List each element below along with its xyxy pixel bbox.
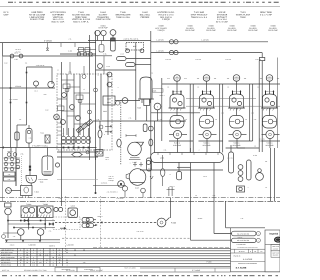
- svg-text:S-607: S-607: [135, 187, 139, 190]
- svg-text:APPROVED FOR CONSTRUCTION: APPROVED FOR CONSTRUCTION: [237, 247, 257, 249]
- svg-text:SCH PIPING: SCH PIPING: [62, 268, 72, 271]
- svg-text:1-1/2: 1-1/2: [221, 113, 224, 115]
- svg-text:4"A: 4"A: [184, 77, 186, 80]
- svg-text:Imperial: Imperial: [269, 233, 278, 236]
- svg-text:4 10: 4 10: [14, 58, 17, 61]
- svg-text:30 G. 6 CAP.: 30 G. 6 CAP.: [216, 20, 229, 23]
- svg-text:2 A: 2 A: [197, 87, 199, 89]
- svg-text:1 A: 1 A: [265, 187, 267, 189]
- svg-text:NOTE 3-8: NOTE 3-8: [2, 269, 9, 272]
- svg-text:4 AC: 4 AC: [45, 109, 49, 112]
- svg-text:1-1/2 CW: 1-1/2 CW: [156, 39, 164, 42]
- svg-text:CONSTR: CONSTR: [273, 248, 279, 250]
- svg-text:4: 4: [33, 256, 34, 259]
- svg-text:606: 606: [268, 79, 271, 81]
- svg-text:2 DRAIN: 2 DRAIN: [15, 85, 22, 88]
- svg-text:2 SL 4: 2 SL 4: [10, 244, 15, 247]
- svg-text:1 CW: 1 CW: [106, 66, 110, 68]
- svg-text:1/2 PM 21: 1/2 PM 21: [101, 181, 108, 184]
- svg-text:9: 9: [20, 248, 21, 251]
- svg-text:4-0 x 7-0 HP: 4-0 x 7-0 HP: [260, 14, 273, 17]
- svg-text:4 SL: 4 SL: [13, 236, 16, 238]
- svg-text:T-609B: T-609B: [43, 203, 48, 206]
- svg-text:HC 21 4: HC 21 4: [15, 48, 21, 51]
- svg-text:1-A: 1-A: [265, 160, 267, 163]
- svg-text:2: 2: [118, 87, 119, 89]
- svg-text:XFER PMP: XFER PMP: [98, 27, 108, 30]
- svg-text:4: 4: [84, 88, 85, 91]
- svg-text:1-1/2 CW: 1-1/2 CW: [165, 58, 172, 61]
- svg-text:UMP: UMP: [4, 14, 9, 17]
- svg-text:04: 04: [74, 253, 76, 256]
- svg-text:2 A: 2 A: [167, 87, 169, 89]
- svg-text:4"A: 4"A: [197, 77, 199, 80]
- svg-text:NOTE 6: NOTE 6: [97, 216, 102, 218]
- svg-text:1-1/2: 1-1/2: [68, 50, 72, 53]
- svg-text:2 SL: 2 SL: [20, 153, 23, 156]
- svg-text:T-602: T-602: [34, 191, 38, 194]
- svg-text:2 REQD: 2 REQD: [157, 29, 165, 32]
- svg-text:2" DRAIN: 2" DRAIN: [44, 39, 53, 42]
- svg-text:2 SL NOTE: 2 SL NOTE: [116, 198, 123, 200]
- svg-text:2: 2: [248, 187, 249, 189]
- svg-text:3 SL: 3 SL: [29, 138, 32, 140]
- svg-text:NOTE 7: NOTE 7: [108, 178, 113, 180]
- svg-text:NOTE 4: NOTE 4: [7, 151, 12, 153]
- svg-text:RG 4750 025 036: RG 4750 025 036: [237, 239, 249, 242]
- svg-text:FEED PMP: FEED PMP: [227, 29, 237, 32]
- svg-text:CWS: CWS: [103, 110, 107, 113]
- svg-text:606: 606: [235, 79, 238, 81]
- svg-text:1-1/2: 1-1/2: [251, 113, 254, 115]
- svg-text:L-601: L-601: [160, 157, 164, 160]
- svg-text:1-1/2 CW 4A: 1-1/2 CW 4A: [36, 64, 45, 67]
- svg-text:21: 21: [59, 248, 61, 251]
- svg-text:1: 1: [130, 163, 131, 165]
- svg-text:1-1/2: 1-1/2: [158, 118, 161, 121]
- svg-text:NOTE 3: NOTE 3: [259, 140, 264, 142]
- svg-text:TANKS 9-0 x 9-0: TANKS 9-0 x 9-0: [191, 16, 208, 19]
- svg-text:TANK: TANK: [240, 16, 246, 19]
- svg-text:2: 2: [170, 173, 171, 176]
- svg-text:2 A: 2 A: [185, 119, 187, 121]
- svg-text:4 SL 21 07: 4 SL 21 07: [137, 231, 144, 233]
- svg-text:2 REQD: 2 REQD: [108, 180, 113, 182]
- svg-text:4 SL: 4 SL: [164, 150, 167, 152]
- svg-text:7: 7: [20, 253, 21, 256]
- svg-text:Y: Y: [258, 240, 259, 242]
- svg-text:4"A: 4"A: [277, 77, 279, 80]
- svg-text:FEED PMP: FEED PMP: [248, 29, 258, 32]
- svg-text:4: 4: [98, 75, 99, 77]
- svg-text:RG 4750 025 036: RG 4750 025 036: [237, 232, 249, 235]
- svg-text:2 A: 2 A: [195, 195, 197, 197]
- svg-text:1-1/2 CW: 1-1/2 CW: [195, 58, 202, 61]
- svg-text:4 SL: 4 SL: [8, 174, 11, 176]
- svg-text:S-610 A/B: S-610 A/B: [66, 244, 73, 247]
- svg-text:N 27 A: N 27 A: [238, 236, 243, 239]
- svg-text:RECORD: RECORD: [273, 255, 279, 257]
- svg-text:T-605: T-605: [137, 107, 141, 110]
- svg-text:TI: TI: [59, 104, 61, 106]
- svg-text:A-1 ACME: A-1 ACME: [243, 258, 253, 261]
- svg-text:4 SL: 4 SL: [254, 119, 257, 121]
- svg-text:2-1/2: 2-1/2: [253, 154, 257, 157]
- svg-text:3" SLURRY TO MILL: 3" SLURRY TO MILL: [32, 144, 48, 147]
- svg-text:04: 04: [66, 258, 68, 261]
- svg-text:AB: AB: [254, 251, 256, 253]
- svg-text:7: 7: [40, 258, 41, 261]
- svg-text:8000 G. CAP.: 8000 G. CAP.: [52, 20, 65, 23]
- svg-text:04: 04: [46, 258, 48, 261]
- svg-text:2 A: 2 A: [25, 62, 27, 65]
- svg-text:P-09B: P-09B: [171, 221, 177, 224]
- svg-text:NOTE 5: NOTE 5: [169, 186, 174, 188]
- svg-text:FEEDER: FEEDER: [141, 16, 150, 19]
- svg-text:LIC: LIC: [268, 76, 270, 78]
- svg-text:T-604: T-604: [40, 132, 44, 135]
- svg-text:4: 4: [40, 248, 41, 251]
- svg-text:1-1/2 CW: 1-1/2 CW: [255, 58, 262, 61]
- svg-text:1-1/2 CW: 1-1/2 CW: [156, 49, 164, 52]
- svg-text:4 SL: 4 SL: [213, 195, 216, 197]
- svg-text:2 A: 2 A: [254, 146, 256, 148]
- svg-text:PROCESS FLOW DIAGRAM: PROCESS FLOW DIAGRAM: [238, 263, 257, 265]
- svg-text:L-602: L-602: [105, 156, 109, 159]
- svg-text:SCALE 2 T/HR: SCALE 2 T/HR: [30, 18, 45, 21]
- svg-text:S.T. ACME: S.T. ACME: [192, 269, 201, 272]
- svg-text:170: 170: [45, 253, 48, 256]
- svg-text:2 A: 2 A: [227, 87, 229, 89]
- svg-text:SLOPE: SLOPE: [198, 218, 203, 220]
- svg-text:LIME SLURRY FD: LIME SLURRY FD: [1, 248, 15, 251]
- svg-text:2 SL TO NOTE 4: 2 SL TO NOTE 4: [107, 192, 118, 194]
- svg-text:606: 606: [205, 79, 208, 81]
- svg-text:2 SL: 2 SL: [129, 118, 132, 120]
- svg-text:21: 21: [57, 70, 59, 72]
- svg-text:2 SL: 2 SL: [8, 179, 11, 181]
- svg-text:TANK 8-0 DIA: TANK 8-0 DIA: [116, 16, 130, 19]
- svg-text:CERT FOR: CERT FOR: [272, 246, 279, 248]
- svg-text:REGRIND SLURRY FD 1 TANK: REGRIND SLURRY FD 1 TANK: [24, 269, 48, 272]
- svg-text:SCH 170-0884: SCH 170-0884: [124, 266, 135, 269]
- svg-text:1-1/2 CW: 1-1/2 CW: [225, 58, 232, 61]
- svg-text:1-1/2 SLURRY: 1-1/2 SLURRY: [9, 99, 18, 101]
- svg-text:2 SL: 2 SL: [241, 218, 244, 220]
- svg-text:4 SL: 4 SL: [103, 53, 106, 56]
- svg-text:LIC: LIC: [176, 76, 178, 78]
- svg-text:P-04B: P-04B: [207, 261, 213, 264]
- svg-text:FE 4: FE 4: [34, 91, 37, 93]
- svg-text:9000 G. 5 HP. A.: 9000 G. 5 HP. A.: [73, 20, 89, 23]
- svg-text:4"A: 4"A: [227, 77, 229, 80]
- svg-text:170: 170: [83, 261, 86, 264]
- svg-text:CERT FOR: CERT FOR: [272, 252, 279, 254]
- svg-text:2 REQD: 2 REQD: [162, 18, 170, 21]
- svg-text:9: 9: [53, 248, 54, 251]
- svg-text:04: 04: [66, 248, 68, 251]
- svg-text:4"A: 4"A: [214, 77, 216, 80]
- svg-text:CK: CK: [261, 251, 263, 253]
- svg-text:2 SL: 2 SL: [69, 39, 72, 41]
- svg-text:4"A: 4"A: [244, 77, 246, 80]
- svg-text:38: 38: [74, 248, 76, 251]
- svg-text:Y: Y: [258, 233, 259, 235]
- svg-text:S-610: S-610: [71, 204, 75, 207]
- svg-text:2 D: 2 D: [19, 119, 21, 121]
- svg-text:4 A: 4 A: [151, 73, 153, 75]
- svg-text:4 SL: 4 SL: [59, 198, 62, 200]
- svg-text:2-1/2 SL: 2-1/2 SL: [227, 157, 233, 160]
- svg-text:4"A: 4"A: [167, 77, 169, 80]
- svg-text:1-602 SLURRY: 1-602 SLURRY: [38, 179, 48, 181]
- svg-text:T-609A: T-609A: [26, 203, 32, 206]
- svg-text:4"A: 4"A: [260, 77, 262, 80]
- svg-text:9: 9: [33, 248, 34, 251]
- svg-text:2-1/2 SL TO 2-1/2 SL: 2-1/2 SL TO 2-1/2 SL: [123, 37, 138, 40]
- svg-text:TANK: TANK: [40, 182, 44, 184]
- svg-text:2 SL 4: 2 SL 4: [203, 176, 207, 178]
- svg-text:4 AC: 4 AC: [43, 94, 46, 96]
- svg-text:1 CW: 1 CW: [120, 54, 124, 56]
- svg-text:NOTE 2: NOTE 2: [159, 95, 164, 97]
- svg-text:2: 2: [104, 133, 105, 136]
- svg-text:NOTE 3: NOTE 3: [49, 244, 55, 247]
- svg-text:PG 02 21: PG 02 21: [234, 255, 241, 258]
- svg-text:PUMP 50 GPM: PUMP 50 GPM: [96, 18, 111, 21]
- svg-text:2 A: 2 A: [245, 119, 247, 121]
- svg-text:FEED PMP: FEED PMP: [268, 29, 278, 32]
- svg-text:P: P: [157, 106, 158, 109]
- svg-text:1-1/2 CW: 1-1/2 CW: [201, 39, 209, 42]
- svg-text:2 A: 2 A: [257, 87, 259, 89]
- svg-text:2 A: 2 A: [215, 119, 217, 121]
- svg-text:2 SL: 2 SL: [49, 231, 52, 233]
- svg-text:38: 38: [52, 256, 54, 259]
- svg-text:19 10 61: 19 10 61: [239, 250, 245, 253]
- svg-text:S-608 A/B: S-608 A/B: [28, 244, 35, 247]
- svg-text:4 AC: 4 AC: [4, 62, 8, 65]
- svg-text:LIC: LIC: [235, 76, 237, 78]
- svg-text:606: 606: [176, 79, 179, 81]
- svg-text:V: V: [63, 133, 64, 135]
- svg-text:9: 9: [27, 248, 28, 251]
- svg-text:38: 38: [83, 248, 85, 251]
- svg-text:R: R: [250, 251, 251, 253]
- svg-text:2: 2: [199, 150, 200, 152]
- svg-text:FEED PMP: FEED PMP: [206, 29, 216, 32]
- svg-text:S.T. ACME: S.T. ACME: [236, 267, 247, 270]
- svg-text:FEED PMP: FEED PMP: [185, 29, 195, 32]
- svg-text:LIC: LIC: [205, 76, 207, 78]
- svg-text:FLOW DIAG: FLOW DIAG: [84, 268, 93, 271]
- svg-text:S-605: S-605: [132, 161, 136, 164]
- svg-text:N FLASH A/B: N FLASH A/B: [236, 243, 245, 246]
- svg-text:4 SL 21: 4 SL 21: [109, 176, 114, 178]
